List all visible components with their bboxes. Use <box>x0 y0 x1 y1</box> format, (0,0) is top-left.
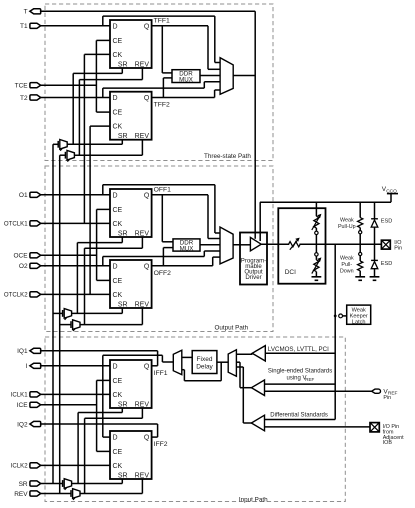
svg-text:Down: Down <box>340 268 354 274</box>
wire T to output driver <box>40 10 255 12</box>
node T1 pad <box>30 23 41 28</box>
node I pad <box>30 363 41 368</box>
wire REV to mux B <box>60 154 66 156</box>
svg-text:TFF2: TFF2 <box>154 102 170 109</box>
svg-text:Weak: Weak <box>340 255 354 261</box>
svg-text:Q: Q <box>144 434 150 441</box>
wire IQ2 from IFF2 Q <box>40 423 158 425</box>
svg-text:MUX: MUX <box>179 77 193 84</box>
wire mux B out <box>74 154 142 156</box>
ESD diode lower <box>374 244 376 260</box>
svg-text:CE: CE <box>113 378 123 385</box>
svg-text:SR: SR <box>118 401 128 408</box>
delay select mux <box>173 350 182 374</box>
svg-text:CK: CK <box>113 392 123 399</box>
flip-flop IFF2 box <box>110 431 152 479</box>
svg-text:Pull-: Pull- <box>341 262 352 268</box>
wire mux out to T line <box>233 75 255 77</box>
wire OCE <box>41 254 97 256</box>
svg-text:IQ2: IQ2 <box>17 421 28 428</box>
wire O2 to OFF2 D <box>41 265 110 267</box>
wire OFF2 Q <box>152 265 213 267</box>
DCI box <box>278 208 325 284</box>
mux output select <box>220 227 233 264</box>
svg-text:Input Path: Input Path <box>239 496 268 503</box>
svg-text:IFF1: IFF1 <box>154 370 168 377</box>
DDR MUX (output) <box>173 239 200 251</box>
DCI pull-up resistor chain <box>315 202 317 216</box>
wire OTCLK1 to OFF1 CK <box>41 222 110 224</box>
svg-text:CK: CK <box>113 221 123 228</box>
DDR MUX (three-state) <box>172 70 200 83</box>
flip-flop TFF2 box <box>110 92 152 140</box>
svg-text:IFF2: IFF2 <box>154 441 168 448</box>
wire delay bypass <box>182 369 185 371</box>
wire I/O to buffer3 <box>265 419 336 421</box>
wire I / IFF1 D <box>40 365 110 367</box>
wire O2 bypass branch <box>102 257 104 266</box>
node ICLK2 pad <box>30 463 41 468</box>
svg-text:CK: CK <box>113 463 123 470</box>
small mux REV invert (three-state) <box>64 152 66 159</box>
wire T2 to TFF2 D <box>41 97 110 99</box>
wire buffer2 to mux <box>236 361 240 363</box>
programmable output driver box <box>240 233 267 285</box>
weak pull-up resistor <box>359 202 361 217</box>
node VREF pin pad <box>372 389 381 393</box>
wire buffer1 to mux <box>236 353 252 355</box>
small mux SR invert (output) <box>62 310 64 317</box>
wire fixed delay to mux <box>182 356 192 358</box>
flip-flop TFF1 box <box>110 20 152 68</box>
svg-text:CE: CE <box>113 278 123 285</box>
ground (pull-down) <box>355 276 365 278</box>
flip-flop OFF2 box <box>110 260 152 308</box>
svg-text:DCI: DCI <box>285 269 296 276</box>
wire IFF2 SR <box>121 479 123 484</box>
input path dashed box <box>45 337 345 502</box>
ESD diode upper <box>374 202 376 219</box>
svg-text:SR: SR <box>118 301 128 308</box>
svg-text:CK: CK <box>113 124 123 131</box>
wire REV <box>41 493 71 495</box>
svg-text:I: I <box>26 363 28 370</box>
flip-flop OFF1 box <box>110 189 152 237</box>
wire T2 bypass branch <box>102 88 104 97</box>
ground (ESD lower) <box>370 276 380 278</box>
wire OFF1 Q to mux <box>152 194 208 196</box>
wire input data vertical <box>102 355 104 437</box>
wire TFF2 SR <box>121 140 123 145</box>
node ICLK1 pad <box>30 392 41 397</box>
svg-text:Q: Q <box>144 363 150 370</box>
VCCO supply symbol <box>387 193 398 195</box>
wire TFF2 Q <box>152 97 215 99</box>
svg-text:ICE: ICE <box>17 402 29 409</box>
input standard mux <box>228 350 236 376</box>
wire ICLK2 to IFF2 CK <box>41 464 110 466</box>
node ICE pad <box>30 402 41 407</box>
svg-text:OTCLK1: OTCLK1 <box>4 221 28 228</box>
wire TFF2 REV <box>141 140 143 156</box>
svg-text:ESD: ESD <box>381 261 393 267</box>
wire I/O feedback to input buffers <box>334 244 336 419</box>
wire buffer3 to mux <box>236 366 243 368</box>
svg-text:TFF1: TFF1 <box>154 17 170 24</box>
wire TFF1 Q to mux <box>152 25 208 27</box>
wire OTCLK2 vertical to TFF2 CK <box>89 126 91 294</box>
three-state path dashed box <box>45 4 273 161</box>
wire I/O to buffer1 <box>265 352 335 354</box>
svg-text:IQ1: IQ1 <box>17 348 28 355</box>
svg-text:Single-ended Standards: Single-ended Standards <box>268 369 332 375</box>
wire OTCLK2 to OFF2 CK <box>41 293 110 295</box>
wire mux A out <box>67 143 122 145</box>
buffer single-ended <box>251 380 264 396</box>
node OCE pad <box>30 253 41 258</box>
mux three-state output select <box>220 58 233 95</box>
svg-text:Q: Q <box>144 192 150 199</box>
wire SR <box>41 483 63 485</box>
wire mux output into driver <box>240 244 250 246</box>
svg-text:T1: T1 <box>20 23 28 30</box>
wire mux A out (output) <box>72 312 123 314</box>
weak pull-down resistor <box>359 244 361 252</box>
svg-text:CCO: CCO <box>386 188 397 194</box>
svg-text:Delay: Delay <box>196 363 213 370</box>
small mux SR invert (input) <box>62 480 64 487</box>
svg-text:D: D <box>113 363 118 370</box>
wire O1 bypass branch <box>102 185 104 195</box>
svg-text:Latch: Latch <box>352 319 366 325</box>
wire VCCO rail <box>260 201 391 203</box>
wire OFF1 SR <box>121 237 123 243</box>
wire SR to mux A (output) <box>53 312 63 314</box>
buffer differential <box>251 415 264 431</box>
I/O pin symbol <box>381 240 390 249</box>
svg-text:O2: O2 <box>19 263 28 270</box>
wire I/O to buffer2 <box>265 383 336 385</box>
wire mux B out (output) <box>80 324 142 326</box>
node I/O pin from adjacent IOB <box>370 423 379 432</box>
node REV pad <box>30 491 41 496</box>
node OTCLK2 pad <box>30 292 41 297</box>
svg-text:T2: T2 <box>20 95 28 102</box>
node OTCLK1 pad <box>30 221 41 226</box>
svg-text:OFF2: OFF2 <box>154 270 172 277</box>
svg-text:Weak: Weak <box>340 217 354 223</box>
svg-text:OCE: OCE <box>14 253 29 260</box>
svg-text:SR: SR <box>19 481 28 488</box>
wire SR global vertical <box>52 144 54 483</box>
svg-text:REV: REV <box>135 401 150 408</box>
node T pad <box>30 9 41 14</box>
wire adjacent pin to buffer3 <box>265 426 371 428</box>
flip-flop IFF1 box <box>110 360 152 408</box>
output path dashed box <box>45 166 273 332</box>
svg-text:TCE: TCE <box>15 83 29 90</box>
node T2 pad <box>30 95 41 100</box>
DCI pull-down resistor chain <box>315 244 317 253</box>
svg-text:Q: Q <box>144 23 150 30</box>
node IQ2 pad <box>30 421 41 426</box>
wire IFF1 SR <box>121 408 123 413</box>
svg-text:Q: Q <box>144 263 150 270</box>
small mux REV invert (output) <box>70 321 72 328</box>
svg-text:Output Path: Output Path <box>215 325 249 332</box>
wire T1 bypass branch <box>102 16 104 26</box>
wire TCE <box>41 84 97 86</box>
svg-text:OFF1: OFF1 <box>154 186 172 193</box>
svg-text:ICLK2: ICLK2 <box>11 463 29 470</box>
wire SR to mux A <box>53 143 58 145</box>
svg-text:T: T <box>24 9 28 16</box>
wire DDR MUX out <box>200 75 220 77</box>
wire OFF1 REV <box>141 237 143 248</box>
svg-text:ICLK1: ICLK1 <box>11 392 29 399</box>
wire standard mux to fixed delay <box>217 361 228 363</box>
svg-text:CE: CE <box>113 110 123 117</box>
svg-text:O1: O1 <box>19 192 28 199</box>
wire OFF2 REV <box>141 308 143 324</box>
wire ICE <box>41 404 97 406</box>
svg-text:REV: REV <box>135 230 150 237</box>
svg-text:CE: CE <box>113 449 123 456</box>
wire DDR MUX out (output) <box>200 244 220 246</box>
svg-text:CK: CK <box>113 52 123 59</box>
wire mux B out (input) <box>80 493 142 495</box>
svg-text:D: D <box>113 192 118 199</box>
svg-text:Three-state Path: Three-state Path <box>204 153 251 160</box>
svg-text:using V: using V <box>287 375 307 381</box>
svg-text:Q: Q <box>144 95 150 102</box>
svg-text:LVCMOS, LVTTL, PCI: LVCMOS, LVTTL, PCI <box>268 346 329 353</box>
wire TFF1 REV <box>141 68 143 80</box>
wire TFF2 Q to DDR mux <box>162 78 164 98</box>
svg-text:CE: CE <box>113 38 123 45</box>
svg-text:D: D <box>113 434 118 441</box>
node IQ1 pad <box>30 348 41 353</box>
svg-text:ESD: ESD <box>381 218 393 224</box>
programmable impedance on output <box>289 242 301 247</box>
svg-text:Pin: Pin <box>383 395 391 401</box>
svg-text:REV: REV <box>135 61 150 68</box>
svg-text:SR: SR <box>118 472 128 479</box>
svg-text:SR: SR <box>118 61 128 68</box>
wire TFF1 SR <box>121 68 123 73</box>
buffer LVCMOS/LVTTL/PCI <box>252 346 265 361</box>
wire mux A out (input) <box>72 483 123 485</box>
weak keeper latch <box>334 315 337 318</box>
wire VREF to buffer2 <box>265 390 372 392</box>
svg-text:SR: SR <box>118 133 128 140</box>
driver buffer triangle <box>250 237 261 251</box>
svg-text:OTCLK2: OTCLK2 <box>4 292 28 299</box>
small mux REV invert (input) <box>70 490 72 497</box>
wire IFF1 REV <box>141 408 143 418</box>
wire driver output (I/O line) <box>261 243 289 245</box>
svg-text:Fixed: Fixed <box>197 356 213 363</box>
svg-text:MUX: MUX <box>180 246 194 253</box>
svg-text:REV: REV <box>135 301 150 308</box>
wire three-state into driver <box>254 233 256 239</box>
wire REV to mux B (output) <box>60 324 71 326</box>
svg-text:Pin: Pin <box>394 246 402 252</box>
wire OFF2 Q to DDR mux <box>162 248 164 266</box>
small mux SR invert (three-state) <box>57 141 59 148</box>
wire ICLK1 to IFF1 CK <box>41 393 110 395</box>
wire OFF2 SR <box>121 308 123 313</box>
svg-text:REV: REV <box>14 491 28 498</box>
svg-text:Driver: Driver <box>245 274 261 281</box>
svg-text:D: D <box>113 263 118 270</box>
svg-text:CK: CK <box>113 292 123 299</box>
svg-text:REV: REV <box>135 133 150 140</box>
svg-text:CE: CE <box>113 207 123 214</box>
wire IQ1 from IFF1 Q <box>40 350 158 352</box>
svg-text:D: D <box>113 95 118 102</box>
wire OFF1 Q to DDR mux <box>161 195 163 242</box>
node O1 pad <box>30 192 41 197</box>
svg-text:SR: SR <box>118 230 128 237</box>
svg-text:REV: REV <box>135 472 150 479</box>
svg-text:D: D <box>113 23 118 30</box>
node TCE pad <box>30 83 41 88</box>
wire IFF2 REV <box>141 479 143 494</box>
wire OTCLK1 vertical to TFF1 CK <box>83 54 85 223</box>
wire T1 to TFF1 D <box>41 25 110 27</box>
node O2 pad <box>30 263 41 268</box>
node SR pad <box>30 481 41 486</box>
ground (DCI) <box>312 276 322 278</box>
fixed delay box <box>192 351 217 374</box>
svg-text:Pull-Up: Pull-Up <box>338 224 356 230</box>
svg-text:IOB: IOB <box>383 440 393 446</box>
wire REV global vertical <box>59 155 61 493</box>
wire TFF1 Q to DDR mux <box>161 26 163 73</box>
wire O1 to OFF1 D <box>41 194 110 196</box>
svg-text:Differential Standards: Differential Standards <box>270 412 328 418</box>
wire mux out to driver <box>233 244 250 246</box>
svg-text:REF: REF <box>305 377 314 382</box>
